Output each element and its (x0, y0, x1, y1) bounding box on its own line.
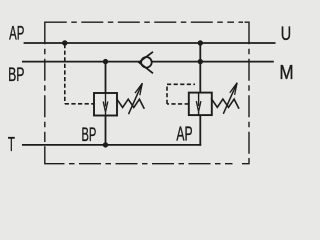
relief valve V2 adjustment arrow (223, 83, 237, 114)
wire valve2 inlet (199, 43, 201, 93)
relief valve V1 spring (116, 98, 144, 108)
node junction T line with valve1 drain (103, 142, 108, 147)
wire T line (22, 144, 201, 146)
relief valve V2 spring (211, 98, 239, 108)
svg-text:BP: BP (8, 64, 24, 86)
check valve (ball and seat) (139, 52, 153, 74)
pilot line (dashed) AP to valve1 (65, 44, 94, 104)
node junction AP to valve2 (198, 40, 203, 45)
node junction on AP at pilot takeoff (62, 40, 67, 45)
wire valve1 drain (105, 116, 107, 145)
relief valve V1 flow arrow (103, 93, 108, 116)
svg-text:U: U (281, 24, 291, 45)
wire valve2 drain (199, 115, 201, 146)
node junction BP to valve1 (103, 59, 108, 64)
wire valve1 inlet (105, 62, 107, 93)
node junction M line with valve2 feed (198, 59, 203, 64)
wire M line (right of check valve) (151, 61, 273, 63)
relief valve V2 flow arrow (196, 93, 201, 116)
svg-text:AP: AP (176, 123, 192, 145)
svg-text:AP: AP (9, 23, 24, 45)
relief valve V2 body (189, 93, 212, 116)
relief valve V1 adjustment arrow (129, 83, 143, 114)
svg-text:BP: BP (82, 124, 97, 146)
svg-text:M: M (279, 61, 293, 84)
relief valve V1 body (94, 93, 117, 116)
svg-text:T: T (8, 133, 15, 156)
wire AP-U line (24, 42, 276, 44)
manifold enclosure (dash-dot frame) (45, 22, 249, 164)
pilot line (dashed) valve2 self-pilot loop (167, 84, 195, 104)
wire BP line (left of check valve) (22, 61, 139, 63)
